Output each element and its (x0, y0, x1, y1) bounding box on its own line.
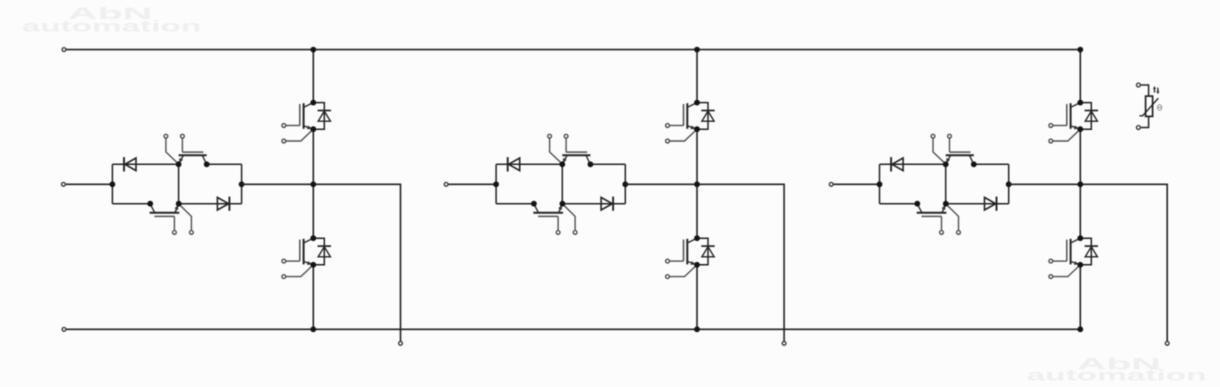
svg-text:automation: automation (22, 19, 202, 36)
svg-text:automation: automation (1027, 368, 1207, 385)
